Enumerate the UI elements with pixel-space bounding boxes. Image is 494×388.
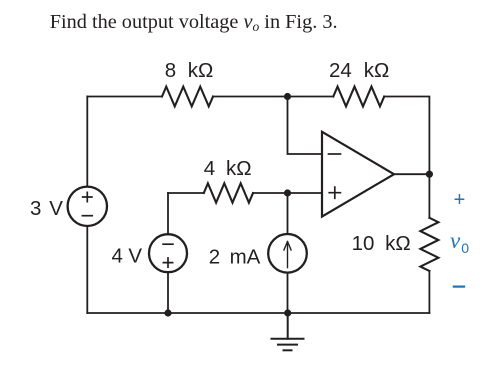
svg-text:4kΩ: 4kΩ bbox=[204, 157, 252, 180]
wire top-right segment into right rail bbox=[384, 97, 429, 218]
wire 2mA branch upper bbox=[287, 193, 289, 234]
svg-text:3V: 3V bbox=[30, 197, 63, 220]
op-amp U1 bbox=[322, 132, 394, 217]
wire 2mA branch lower bbox=[287, 273, 289, 313]
label output plus bbox=[454, 189, 466, 211]
wire top-middle segment bbox=[213, 96, 333, 98]
wire 4k rail to noninverting input bbox=[253, 192, 322, 194]
node junction at plus input branch bbox=[284, 189, 291, 196]
V1 minus sign bbox=[82, 215, 92, 217]
wire op-amp output bbox=[394, 173, 429, 175]
op-amp minus sign bbox=[329, 153, 341, 155]
svg-text:10kΩ: 10kΩ bbox=[352, 232, 411, 255]
resistor 8 kOhm zigzag bbox=[162, 87, 213, 107]
label output vo bbox=[450, 228, 469, 256]
svg-text:v: v bbox=[450, 228, 461, 253]
label 8 kOhm bbox=[165, 59, 214, 82]
wire right rail lower bbox=[428, 271, 430, 313]
svg-text:2mA: 2mA bbox=[209, 245, 261, 268]
wire 4V branch upper bbox=[167, 193, 169, 234]
op-amp plus sign bbox=[329, 187, 340, 198]
V2 minus sign bbox=[163, 243, 173, 245]
wire top-left segment bbox=[87, 96, 162, 98]
wire 4V branch lower bbox=[167, 272, 169, 313]
I1 arrow bbox=[284, 242, 291, 268]
svg-text:24kΩ: 24kΩ bbox=[329, 59, 389, 82]
voltage source V1 3V circle bbox=[68, 187, 107, 226]
voltage source V2 4V circle bbox=[149, 234, 187, 272]
label 2 mA bbox=[209, 245, 261, 268]
label 4 kOhm bbox=[204, 157, 252, 180]
label 10 kOhm bbox=[352, 232, 411, 255]
resistor 24 kOhm zigzag bbox=[333, 87, 384, 107]
title text bbox=[50, 11, 338, 34]
svg-text:0: 0 bbox=[461, 240, 469, 256]
label 24 kOhm bbox=[329, 59, 389, 82]
wire bottom rail bbox=[87, 312, 429, 314]
resistor 10 kOhm zigzag bbox=[420, 218, 438, 271]
wire left rail lower bbox=[86, 226, 88, 313]
label 3 V bbox=[30, 197, 63, 220]
node junction 4V bottom bbox=[164, 309, 171, 316]
current source I1 2mA circle bbox=[268, 234, 307, 273]
svg-text:4V: 4V bbox=[112, 244, 143, 267]
label output minus bbox=[454, 286, 464, 288]
node junction ground tap bbox=[284, 309, 291, 316]
V1 plus sign bbox=[83, 192, 92, 201]
V2 plus sign bbox=[163, 258, 172, 267]
wire 4k rail left corner bbox=[168, 192, 204, 194]
wire left rail upper bbox=[86, 97, 88, 187]
svg-text:Find the output voltage vo in: Find the output voltage vo in Fig. 3. bbox=[50, 11, 338, 34]
resistor 4 kOhm zigzag bbox=[204, 183, 253, 202]
label 4 V bbox=[112, 244, 143, 267]
node output junction bbox=[426, 171, 433, 178]
svg-text:8kΩ: 8kΩ bbox=[165, 59, 214, 82]
wire feedback drop to inverting input bbox=[288, 97, 323, 155]
ground bbox=[272, 313, 304, 350]
svg-text:+: + bbox=[454, 189, 466, 211]
node junction at feedback tap bbox=[284, 93, 291, 100]
